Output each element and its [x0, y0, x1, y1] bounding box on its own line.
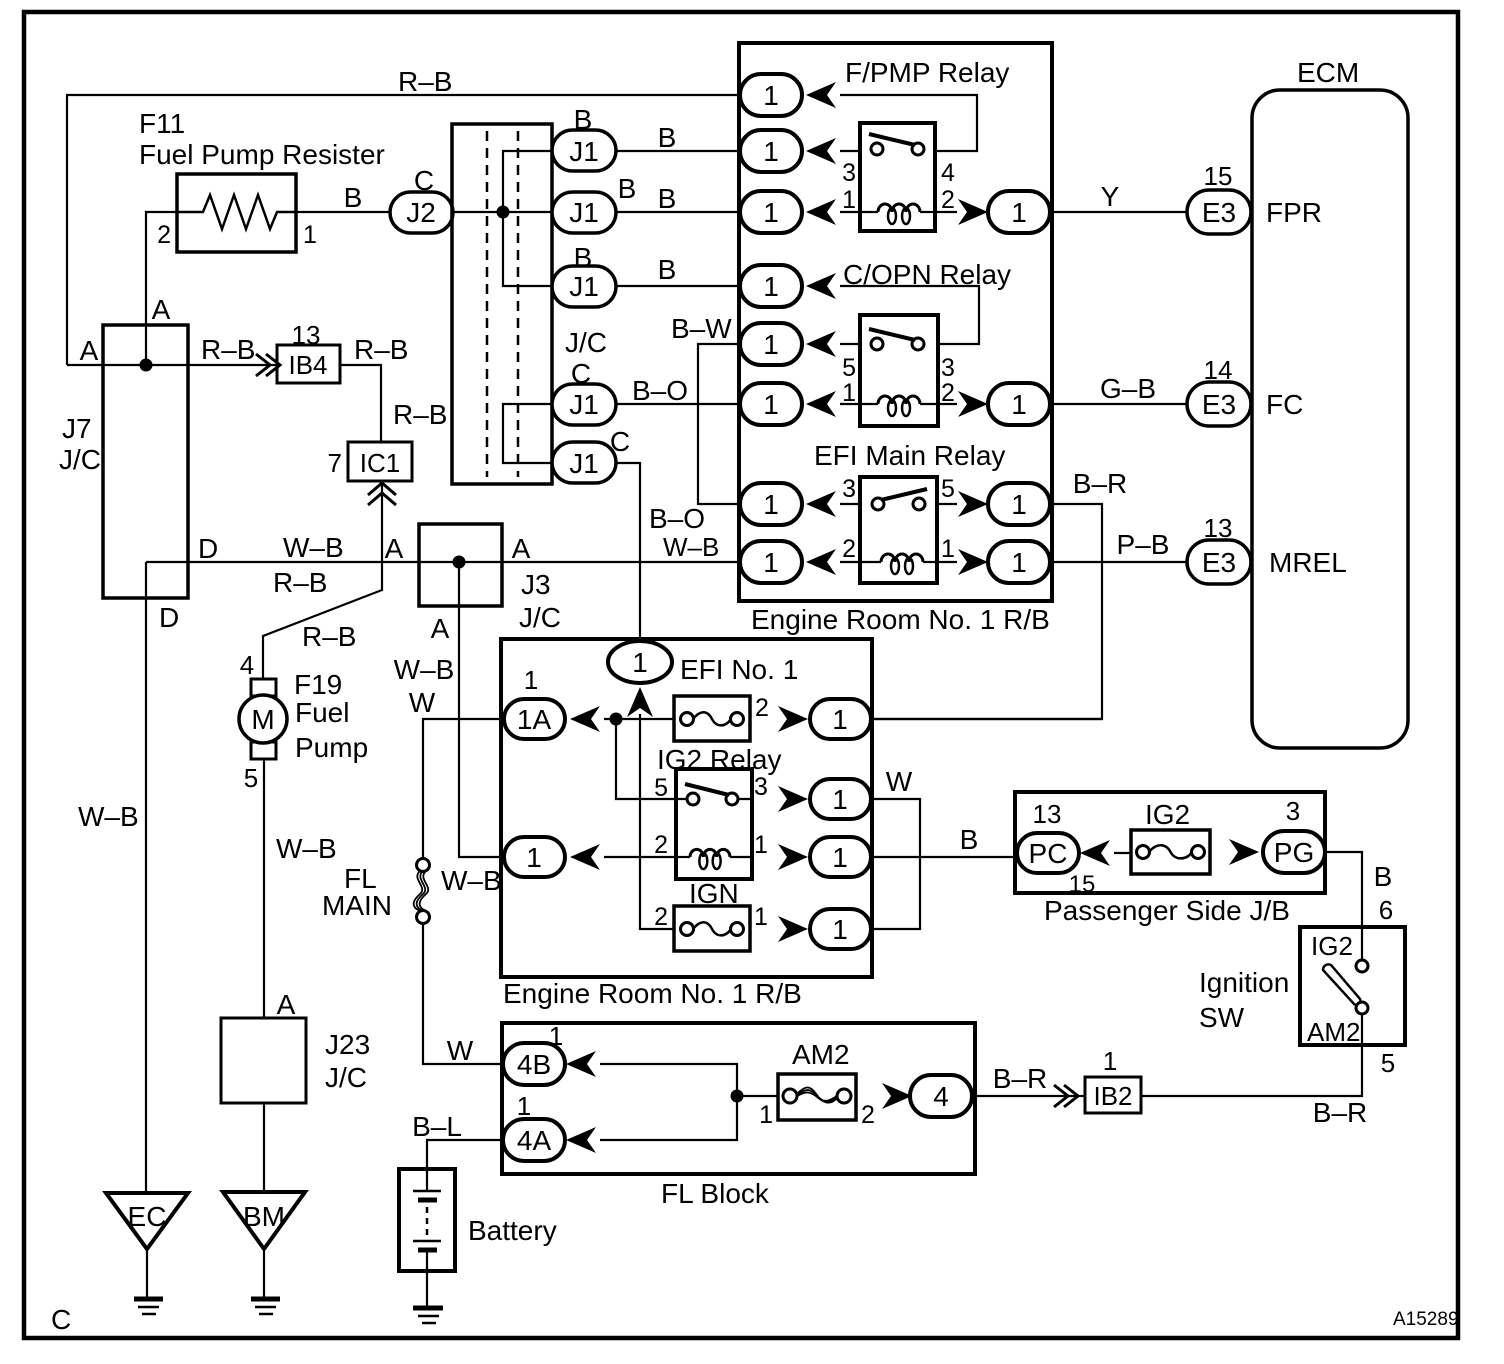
svg-text:5: 5	[842, 354, 856, 382]
connector E3 (FC)	[1187, 382, 1251, 426]
wire battery to ground	[426, 1271, 428, 1306]
junction/relay block Engine Room No.1 R/B (lower)	[501, 639, 872, 977]
wire IG2 contact leads	[676, 798, 752, 800]
svg-text:D: D	[198, 533, 218, 564]
arrow out of IG2 coil	[778, 844, 808, 870]
arrow into F/PMP contact	[806, 138, 836, 164]
node 1 (IG2 coil feed)	[504, 837, 565, 877]
relay F/PMP coil	[860, 204, 935, 224]
svg-text:2: 2	[654, 831, 668, 859]
connector J2	[390, 192, 453, 233]
svg-text:1: 1	[1103, 1046, 1117, 1076]
ground symbol (battery)	[413, 1308, 443, 1323]
svg-text:J1: J1	[569, 389, 599, 420]
svg-text:R–B: R–B	[354, 334, 408, 365]
arrow into 4B	[566, 1051, 596, 1077]
arrow out of IG2 fuse	[1229, 839, 1259, 865]
junction block J7 J/C	[103, 325, 188, 598]
svg-text:Ignition: Ignition	[1199, 967, 1289, 998]
svg-text:B: B	[960, 824, 979, 855]
switch IG2 terminal	[1356, 960, 1368, 972]
junction block J23 J/C	[221, 1018, 306, 1103]
svg-text:EFI Main Relay: EFI Main Relay	[814, 440, 1005, 471]
wire 1A to EFI No.1 fuse	[604, 718, 674, 720]
svg-text:EC: EC	[128, 1201, 167, 1232]
node 1 (C/OPN output)	[988, 383, 1050, 425]
svg-text:1: 1	[941, 535, 955, 563]
svg-text:2: 2	[842, 535, 856, 563]
wire EC to ground	[146, 1249, 148, 1298]
wire BM to ground	[263, 1249, 265, 1298]
svg-text:R–B: R–B	[273, 567, 327, 598]
wire IC1 down to fuel pump pin4	[263, 481, 382, 679]
svg-text:3: 3	[1286, 796, 1300, 826]
wire IB4 to IC1	[340, 365, 381, 442]
fuse IGN	[674, 906, 750, 951]
wire F/PMP feed to contact pin4	[840, 95, 977, 151]
wire IG2 coil feed to pin2	[604, 856, 676, 858]
wire Y to ECM FPR	[1050, 211, 1188, 213]
svg-text:F/PMP Relay: F/PMP Relay	[845, 57, 1009, 88]
relay F/PMP box	[860, 123, 935, 231]
svg-text:2: 2	[755, 694, 769, 722]
node 1 (IG2 contact output)	[810, 779, 871, 819]
relay EFI Main box	[860, 477, 937, 583]
svg-text:R–B: R–B	[398, 66, 452, 97]
resistor F11 box	[177, 174, 296, 252]
node 4 (FL Block output)	[910, 1075, 972, 1117]
svg-text:A15289: A15289	[1393, 1309, 1459, 1330]
wire 1A node down to IG2 contact pin5	[616, 719, 676, 799]
svg-text:1: 1	[524, 665, 538, 695]
connector 4B	[503, 1043, 565, 1085]
node 1 (F/PMP coil B)	[740, 191, 802, 233]
svg-text:FL Block: FL Block	[661, 1178, 770, 1209]
svg-text:AM2: AM2	[1307, 1017, 1360, 1047]
wire row A through J7 to IB4	[67, 364, 277, 366]
relay IG2 coil	[676, 849, 752, 869]
node 1 (F/PMP contact B)	[740, 130, 802, 172]
wire junction to AM2 fuse	[737, 1095, 778, 1097]
svg-text:1: 1	[526, 842, 542, 873]
svg-text:1: 1	[754, 903, 768, 931]
EFI Main pin labels	[842, 475, 955, 563]
svg-text:J1: J1	[569, 197, 599, 228]
svg-text:J3: J3	[521, 569, 551, 600]
svg-text:Pump: Pump	[295, 732, 368, 763]
switch Ignition SW box	[1300, 927, 1405, 1045]
fuse EFI No.1	[674, 696, 750, 741]
svg-text:5: 5	[244, 763, 258, 793]
wire resistor pin1 to J2	[296, 211, 390, 213]
svg-text:15: 15	[1204, 161, 1233, 191]
svg-text:1: 1	[763, 329, 779, 360]
svg-text:A: A	[80, 335, 99, 366]
arrow into PC	[1080, 840, 1110, 866]
wire B to passenger J/B	[870, 856, 1017, 858]
wire to C/OPN pin1	[840, 403, 860, 405]
svg-text:EFI No. 1: EFI No. 1	[680, 654, 798, 685]
wire C/OPN feed to contact pin3	[840, 286, 979, 344]
svg-text:Battery: Battery	[468, 1215, 557, 1246]
ground triangle BM	[223, 1192, 305, 1249]
wire C J1-5 down to EFI No.1 feed	[616, 463, 640, 642]
svg-text:A: A	[152, 294, 171, 325]
svg-text:B–O: B–O	[649, 503, 705, 534]
svg-text:1: 1	[763, 547, 779, 578]
svg-text:IB2: IB2	[1093, 1081, 1132, 1111]
arrow out of EFI No.1 fuse	[778, 706, 808, 732]
svg-text:B: B	[344, 182, 363, 213]
connector IC1	[348, 442, 412, 481]
AM2 pin labels	[759, 1101, 875, 1129]
wire resistor pin2 to junction A	[146, 212, 177, 365]
relay IG2 box	[676, 769, 752, 879]
svg-text:B–L: B–L	[412, 1111, 462, 1142]
svg-text:PC: PC	[1029, 838, 1068, 869]
svg-text:1: 1	[303, 221, 317, 249]
fusible link AM2	[778, 1074, 856, 1120]
wire to F/PMP pin3	[840, 150, 860, 152]
switch AM2 terminal	[1356, 1002, 1368, 1014]
wire B J1-1 to relay box	[616, 150, 739, 152]
arrow into 1A	[570, 706, 600, 732]
wire B J1-3 to relay box	[616, 285, 739, 287]
svg-text:E3: E3	[1202, 547, 1236, 578]
svg-text:1: 1	[832, 914, 848, 945]
wire B-L battery to 4A	[427, 1140, 502, 1169]
node 1 (IG2 coil output)	[810, 837, 871, 877]
wire B-R to EFI No.1 fuse	[872, 504, 1102, 719]
svg-text:Fuel Pump Resister: Fuel Pump Resister	[139, 139, 385, 170]
connector E3 (FPR)	[1187, 190, 1251, 234]
svg-text:1: 1	[1011, 547, 1027, 578]
svg-text:1: 1	[842, 379, 856, 407]
svg-text:IG2: IG2	[1311, 931, 1353, 961]
svg-text:R–B: R–B	[302, 621, 356, 652]
wire J/C internal bus upper	[503, 151, 552, 286]
C/OPN pin labels	[842, 354, 955, 407]
svg-text:E3: E3	[1202, 197, 1236, 228]
svg-text:2: 2	[861, 1101, 875, 1129]
svg-text:B: B	[658, 254, 677, 285]
svg-text:3: 3	[941, 354, 955, 382]
battery	[399, 1169, 455, 1271]
junction block Passenger Side J/B	[1015, 792, 1325, 893]
motor F19 fuel pump	[239, 679, 287, 759]
svg-text:15: 15	[1069, 871, 1096, 898]
arrow into C/OPN feed	[806, 273, 836, 299]
svg-text:1: 1	[842, 186, 856, 214]
wire to EFI Main pin2	[840, 561, 860, 563]
svg-text:J1: J1	[569, 136, 599, 167]
svg-text:IB4: IB4	[288, 350, 327, 380]
junction dot in J/C	[497, 206, 510, 219]
svg-text:4B: 4B	[517, 1049, 551, 1080]
relay F/PMP contact	[871, 143, 883, 155]
svg-text:1: 1	[517, 1091, 531, 1121]
wire R-B from J7 row A up-left and across top to F/PMP relay	[67, 95, 739, 365]
splice below IC1	[368, 483, 396, 505]
junction dot J7 row A	[140, 359, 153, 372]
svg-text:J/C: J/C	[565, 327, 607, 358]
svg-text:IC1: IC1	[360, 448, 400, 478]
svg-text:1: 1	[832, 704, 848, 735]
svg-text:B: B	[1374, 861, 1393, 892]
wire feed down to IGN fuse	[640, 714, 680, 929]
svg-text:P–B: P–B	[1117, 529, 1170, 560]
wire EFI No.1 output to B-R	[870, 718, 1102, 720]
svg-text:4A: 4A	[517, 1125, 552, 1156]
connector IB4	[277, 345, 340, 383]
svg-text:A: A	[512, 533, 531, 564]
svg-text:W–B: W–B	[394, 654, 455, 685]
relay EFI Main coil	[860, 554, 937, 574]
node 1 (C/OPN contact B-W)	[740, 323, 802, 365]
svg-text:W–B: W–B	[441, 865, 502, 896]
arrow into IG2 coil feed	[570, 844, 600, 870]
svg-text:J/C: J/C	[325, 1062, 367, 1093]
arrow into C/OPN contact	[806, 331, 836, 357]
node 1 (EFI Main coil output)	[988, 541, 1050, 583]
wire to C/OPN pin5	[840, 343, 860, 345]
splice to IB2	[1054, 1085, 1078, 1107]
svg-text:AM2: AM2	[792, 1039, 850, 1070]
arrow into 4A	[566, 1127, 596, 1153]
svg-text:W–B: W–B	[276, 833, 337, 864]
svg-text:6: 6	[1379, 895, 1393, 925]
svg-text:R–B: R–B	[393, 399, 447, 430]
svg-text:1: 1	[763, 197, 779, 228]
arrow up to EFI No.1 feed	[627, 687, 653, 717]
arrow out of F/PMP	[958, 199, 988, 225]
connector J1 no.5	[552, 442, 616, 483]
wire B-W C/OPN pin5 to EFI Main pin3	[698, 344, 739, 504]
svg-text:4: 4	[933, 1081, 949, 1112]
svg-text:2: 2	[941, 186, 955, 214]
svg-text:J/C: J/C	[59, 444, 101, 475]
svg-text:B–O: B–O	[632, 375, 688, 406]
wire W 1A to FL MAIN to 4B	[423, 719, 503, 1064]
connector 4A	[503, 1119, 565, 1161]
svg-text:E3: E3	[1202, 389, 1236, 420]
wire B J1-2 to relay box	[616, 211, 739, 213]
svg-text:W: W	[447, 1035, 474, 1066]
wire PG to ignition switch	[1325, 852, 1362, 960]
connector J1 no.3	[552, 266, 616, 307]
wire 4A to AM2 junction	[600, 1096, 737, 1140]
svg-text:3: 3	[842, 159, 856, 187]
svg-text:2: 2	[654, 903, 668, 931]
wire J/C internal bus lower	[503, 404, 552, 463]
svg-text:1: 1	[763, 80, 779, 111]
svg-text:W–B: W–B	[283, 532, 344, 563]
svg-text:1: 1	[632, 647, 648, 678]
svg-text:FC: FC	[1266, 389, 1303, 420]
wire J2 through J/C to J1 row B	[452, 211, 552, 213]
wire D W-B from J7 to EFI Main coil	[146, 561, 739, 563]
wire EFI Main pin1 out	[937, 561, 957, 563]
svg-text:2: 2	[157, 221, 171, 249]
wire G-B to ECM FC	[1050, 403, 1188, 405]
svg-text:4: 4	[941, 159, 955, 187]
node 1 (EFI No.1 output)	[810, 699, 871, 739]
arrow out of EFI Main coil	[958, 549, 988, 575]
relay C/OPN box	[860, 315, 938, 426]
connector IB2	[1085, 1077, 1141, 1113]
svg-text:B–W: B–W	[671, 313, 732, 344]
wire EFI Main pin5 out	[937, 503, 957, 505]
svg-text:5: 5	[1381, 1048, 1395, 1078]
node 1 (EFI Main contact)	[740, 483, 802, 525]
junction block J3 J/C	[419, 524, 502, 606]
connector PG	[1263, 831, 1325, 873]
svg-text:13: 13	[1033, 799, 1062, 829]
svg-text:J2: J2	[406, 197, 436, 228]
node 1 (F/PMP output)	[988, 191, 1050, 233]
ground triangle EC	[106, 1193, 188, 1249]
svg-text:3: 3	[842, 475, 856, 503]
svg-text:J1: J1	[569, 271, 599, 302]
IGN pin labels	[654, 903, 768, 931]
svg-text:7: 7	[328, 448, 342, 478]
svg-text:IG2: IG2	[1145, 799, 1190, 830]
node 1 (C/OPN feed B)	[740, 265, 802, 307]
svg-text:B–R: B–R	[1073, 468, 1127, 499]
F/PMP pin labels	[842, 159, 955, 214]
wire 4 to IB2	[972, 1095, 1085, 1097]
wire PC to IG2 fuse	[1114, 852, 1131, 854]
ground symbol (BM)	[251, 1299, 280, 1314]
arrow out of EFI Main contact	[958, 491, 988, 517]
svg-text:PG: PG	[1274, 837, 1314, 868]
svg-text:1: 1	[1011, 197, 1027, 228]
node 1 (C/OPN coil B-O)	[740, 383, 802, 425]
svg-text:D: D	[159, 602, 179, 633]
svg-text:1: 1	[754, 831, 768, 859]
relay IG2 contact	[687, 793, 699, 805]
wire P-B to ECM MREL	[1050, 561, 1188, 563]
switch lever	[1323, 964, 1360, 1004]
wire to EFI Main pin3	[840, 503, 860, 505]
svg-text:F19: F19	[294, 669, 342, 700]
svg-text:MREL: MREL	[1269, 547, 1347, 578]
svg-text:5: 5	[654, 774, 668, 802]
svg-text:2: 2	[941, 379, 955, 407]
svg-text:G–B: G–B	[1100, 373, 1156, 404]
svg-text:1: 1	[832, 784, 848, 815]
wire B-O J1-4 to relay box	[616, 403, 739, 405]
svg-text:W: W	[409, 687, 436, 718]
arrow out of IG2 contact	[778, 786, 808, 812]
junction block FL Block	[502, 1023, 975, 1174]
node 1 (EFI Main contact output)	[988, 483, 1050, 525]
svg-text:B: B	[618, 173, 637, 204]
svg-text:BM: BM	[243, 1201, 285, 1232]
svg-text:B–R: B–R	[1313, 1097, 1367, 1128]
wire W loop (IG2 contact + IGN outputs)	[870, 799, 920, 929]
node 1 (EFI No.1 feed from J1)	[608, 641, 672, 683]
svg-text:SW: SW	[1199, 1002, 1245, 1033]
ECM box	[1252, 90, 1408, 748]
svg-text:Engine Room No. 1 R/B: Engine Room No. 1 R/B	[503, 978, 802, 1009]
svg-text:1: 1	[763, 389, 779, 420]
svg-text:Fuel: Fuel	[295, 697, 349, 728]
arrow out of IGN fuse	[778, 916, 808, 942]
junction/relay block Engine Room No.1 R/B (upper)	[739, 43, 1052, 601]
svg-text:MAIN: MAIN	[322, 890, 392, 921]
wire J3 down to IG2 relay coil feed	[459, 562, 503, 857]
svg-text:Y: Y	[1101, 181, 1120, 212]
arrow out of C/OPN	[958, 391, 988, 417]
relay EFI Main contact	[872, 498, 884, 510]
svg-text:3: 3	[754, 773, 768, 801]
node 1 (F/PMP feed R-B)	[740, 74, 802, 116]
svg-text:R–B: R–B	[201, 334, 255, 365]
connector PC	[1017, 833, 1079, 873]
svg-text:J1: J1	[569, 448, 599, 479]
fusible link FL MAIN	[414, 859, 430, 924]
svg-text:W–B: W–B	[78, 801, 139, 832]
connector E3 (MREL)	[1187, 540, 1251, 584]
junction dot J3	[453, 556, 466, 569]
arrow into F/PMP coil	[806, 199, 836, 225]
svg-text:A: A	[277, 989, 296, 1020]
relay C/OPN coil	[860, 396, 938, 416]
wire 4B to AM2 junction	[600, 1064, 737, 1096]
svg-text:5: 5	[941, 475, 955, 503]
relay C/OPN contact	[871, 338, 883, 350]
connector 1A	[504, 699, 565, 739]
fuse IG2	[1131, 830, 1210, 874]
svg-text:A: A	[431, 613, 450, 644]
wire J23 to BM	[263, 1103, 265, 1192]
connector J1 no.2	[552, 192, 616, 233]
svg-text:A: A	[385, 533, 404, 564]
svg-text:1: 1	[1011, 389, 1027, 420]
arrow into EFI Main contact	[806, 491, 836, 517]
svg-text:Engine Room No. 1 R/B: Engine Room No. 1 R/B	[751, 604, 1050, 635]
node 1 (EFI Main coil W-B)	[740, 541, 802, 583]
wire to F/PMP pin1	[840, 211, 860, 213]
svg-text:1: 1	[832, 842, 848, 873]
splice to IB4	[256, 354, 280, 376]
junction dot (AM2 feed)	[731, 1090, 744, 1103]
connector J1 no.1	[552, 130, 616, 171]
svg-text:C: C	[51, 1304, 71, 1335]
svg-text:1A: 1A	[517, 704, 552, 735]
junction block J/C (dashed box)	[452, 124, 552, 484]
svg-text:ECM: ECM	[1297, 57, 1359, 88]
svg-text:FPR: FPR	[1266, 197, 1322, 228]
wire AM2 terminal to IB2	[1141, 1014, 1362, 1096]
ground symbol (EC)	[134, 1299, 163, 1314]
svg-text:B: B	[658, 122, 677, 153]
svg-text:J23: J23	[325, 1029, 370, 1060]
arrow into EFI Main coil	[806, 549, 836, 575]
node 1 (IGN output)	[810, 909, 871, 949]
svg-text:1: 1	[763, 271, 779, 302]
svg-text:B–R: B–R	[993, 1063, 1047, 1094]
connector J1 no.4	[552, 384, 616, 425]
svg-text:Passenger Side J/B: Passenger Side J/B	[1044, 895, 1290, 926]
wire pump pin5 to J23	[263, 759, 265, 1018]
IG2 relay pin labels	[654, 773, 768, 859]
svg-text:M: M	[251, 704, 274, 735]
svg-text:1: 1	[763, 489, 779, 520]
wire F/PMP pin2 out	[935, 211, 957, 213]
svg-text:W–B: W–B	[663, 532, 719, 562]
